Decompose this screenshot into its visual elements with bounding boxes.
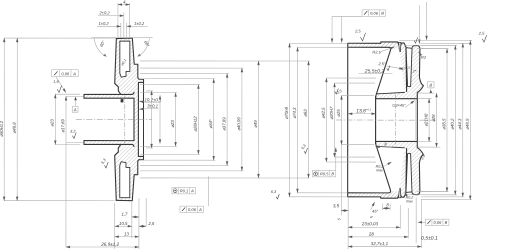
extension line face top right bbox=[417, 92, 434, 94]
dimension 28 line bbox=[348, 236, 408, 238]
diameter line phi23 hub bbox=[54, 94, 56, 144]
svg-text:0,06: 0,06 bbox=[61, 71, 70, 76]
dimension 1±0.2 right line bbox=[127, 25, 148, 27]
svg-text:B: B bbox=[331, 171, 334, 176]
extension line 2±0.2 bbox=[123, 12, 125, 37]
right view bore left wall bbox=[375, 96, 377, 144]
svg-text:2,5: 2,5 bbox=[147, 221, 155, 226]
dimension 32.7 line bbox=[348, 246, 421, 248]
parallelism frame 0.06 A upper bbox=[52, 70, 79, 77]
left view lower rim outline bbox=[116, 119, 143, 200]
left view upper rim groove cavity bbox=[120, 41, 130, 77]
datum A arrow bbox=[74, 97, 77, 100]
extension line upper to column &#8960;40,09 bbox=[140, 67, 243, 69]
left view lower rim groove cavity bbox=[120, 162, 130, 198]
roughness small at wall bbox=[387, 66, 390, 71]
column phi26 bbox=[333, 83, 335, 157]
column phi81.4 bbox=[288, 43, 290, 197]
svg-text:⌀49,8: ⌀49,8 bbox=[12, 122, 17, 134]
svg-text:⌀42,5: ⌀42,5 bbox=[321, 107, 326, 119]
rim top extension line bbox=[92, 37, 153, 39]
right view outer face bbox=[416, 92, 418, 147]
svg-text:0,3×45°: 0,3×45° bbox=[392, 104, 406, 108]
extension line lower to column &#8960;49 bbox=[140, 177, 260, 179]
extension line hub upper bbox=[55, 93, 80, 95]
right view upper groove notch bbox=[399, 42, 401, 51]
extension phi25 top bbox=[342, 95, 375, 97]
column aux line bbox=[340, 145, 342, 215]
extension line flange ID bottom bbox=[297, 192, 347, 194]
dimension 26.9±1.2 line bbox=[66, 246, 139, 248]
roughness 3.2 mark hub bbox=[72, 132, 76, 138]
right view upper recess white area bbox=[377, 49, 405, 94]
extension upper &#8960;48,9 bbox=[469, 40, 472, 42]
column &#8960;48,9 bbox=[469, 41, 471, 200]
svg-text:0,06: 0,06 bbox=[434, 220, 443, 225]
extension lower &#8960;38,5 bbox=[421, 191, 449, 193]
svg-text:2,5: 2,5 bbox=[354, 29, 361, 34]
right view upper left wall outer edge bbox=[401, 43, 407, 92]
short column near ledge bbox=[151, 91, 153, 148]
extension line flange lip right bbox=[420, 42, 471, 44]
extension line col42 bottom bbox=[326, 161, 376, 163]
extension line rim tip left bbox=[117, 3, 119, 37]
diameter line phi17.69 hub bbox=[65, 96, 67, 246]
left view upper body section (hatched) bbox=[84, 38, 144, 119]
svg-text:A: A bbox=[72, 71, 76, 76]
left view upper rim outline bbox=[116, 38, 143, 119]
extension line flange OD bottom bbox=[289, 196, 347, 198]
column phi25 bbox=[340, 96, 342, 145]
extension line lower to column &#8960;37,69 bbox=[140, 164, 229, 166]
projection line to right view bbox=[260, 60, 310, 62]
svg-text:A: A bbox=[190, 188, 194, 193]
extension upper dome bbox=[417, 48, 449, 50]
extension line upper to column &#8960;28H12 bbox=[140, 84, 200, 86]
left view lower rim left wall outline bbox=[115, 144, 121, 200]
extension line upper to column &#8960;37,69 bbox=[140, 72, 229, 74]
extension line bottom ledge bbox=[138, 198, 140, 249]
right view upper V-channel cavity bbox=[406, 48, 412, 87]
extension line flange top right bbox=[399, 39, 472, 41]
right view upper flange inner edge bbox=[348, 47, 391, 98]
diameter dimension line &#8960;49 bbox=[257, 61, 259, 178]
extension line lower to column &#8960;23 bbox=[140, 145, 177, 147]
ext short col bottom bbox=[146, 147, 153, 149]
svg-text:⌀20H7: ⌀20H7 bbox=[329, 106, 334, 119]
svg-text:⌀50±0,2: ⌀50±0,2 bbox=[0, 120, 4, 136]
svg-text:3,2: 3,2 bbox=[70, 130, 76, 134]
datum B arrow bbox=[430, 90, 433, 93]
diameter dimension line &#8960;37,69 bbox=[226, 73, 228, 165]
svg-text:B: B bbox=[445, 220, 448, 225]
extension line flange OD top bbox=[290, 42, 348, 44]
parallelism frame 0.06 A lower bbox=[180, 206, 204, 212]
right view bore top line bbox=[376, 98, 418, 100]
leader from frame bbox=[56, 77, 66, 93]
svg-text:3±0,1: 3±0,1 bbox=[147, 104, 159, 109]
diameter dimension line &#8960;34* bbox=[213, 79, 215, 160]
dimension 1±0.2 left line bbox=[97, 25, 121, 27]
svg-text:0,5±0,1: 0,5±0,1 bbox=[421, 236, 438, 242]
svg-text:⌀17,69: ⌀17,69 bbox=[60, 119, 65, 133]
leader frame connector bbox=[332, 15, 362, 17]
datum A frame bbox=[72, 106, 78, 112]
diameter dim line phi49.8 bbox=[16, 38, 18, 201]
svg-text:max: max bbox=[376, 168, 383, 172]
right view lower recess white area bbox=[377, 146, 405, 191]
dimension 23±0.03 line bbox=[348, 226, 400, 228]
right view left face line bbox=[347, 43, 349, 197]
extension line hub inner upper bbox=[66, 95, 84, 97]
short column hub right bbox=[159, 95, 161, 143]
svg-text:⌀74,3: ⌀74,3 bbox=[292, 107, 297, 119]
extension upper &#8960;40,2 bbox=[421, 44, 457, 46]
svg-text:6,3: 6,3 bbox=[271, 190, 277, 194]
extension line upper to column &#8960;49 bbox=[140, 60, 260, 62]
leader frame to flange right bbox=[341, 16, 343, 42]
extension line lower to column &#8960;28H12 bbox=[140, 153, 200, 155]
svg-text:-0,15: -0,15 bbox=[404, 65, 410, 69]
parallelism frame 0.06 B bottom bbox=[425, 219, 449, 225]
dimension 13.8 line bbox=[348, 113, 375, 115]
svg-text:B: B bbox=[381, 11, 384, 16]
svg-text:26,9±1,2: 26,9±1,2 bbox=[100, 242, 119, 247]
dimension 3.5 line bbox=[341, 210, 348, 212]
leader runout frame bbox=[335, 148, 337, 171]
svg-text:+0,1: +0,1 bbox=[366, 107, 372, 111]
right view bore vertical centerline bbox=[394, 95, 396, 146]
left view bore top line bbox=[84, 98, 134, 119]
right view lower flange section (hatched) bbox=[348, 193, 398, 199]
extension line bore top right bbox=[417, 98, 431, 100]
extension line bore bottom right bbox=[417, 140, 431, 142]
leader to runout frames bbox=[207, 176, 209, 206]
extension lower wall tips bbox=[404, 194, 457, 196]
svg-text:⌀25: ⌀25 bbox=[336, 109, 341, 117]
leader 0.06B bottom bbox=[418, 221, 426, 223]
extension line flange ID top bbox=[298, 46, 348, 48]
right view bore bottom line bbox=[376, 140, 418, 142]
roughness 2.5 far right bbox=[482, 35, 486, 42]
svg-text:13,8: 13,8 bbox=[356, 108, 366, 114]
svg-text:32,7±1,1: 32,7±1,1 bbox=[371, 241, 389, 246]
svg-text:2±0,2: 2±0,2 bbox=[98, 10, 110, 15]
column &#8960;44,3 bbox=[462, 43, 464, 197]
svg-text:R2,5: R2,5 bbox=[372, 50, 381, 55]
right view lower right wall outline bbox=[412, 148, 423, 195]
angle 60 left arc bbox=[94, 39, 107, 57]
parallelism frame 0.06 B top bbox=[362, 10, 386, 16]
dimension 13 line bbox=[115, 236, 139, 238]
right view lower rim block section (hatched) bbox=[376, 141, 424, 198]
dimension 1.7 line bbox=[132, 216, 139, 218]
svg-text:⌀38,5: ⌀38,5 bbox=[441, 118, 446, 130]
extension line rim tip right bbox=[129, 3, 131, 37]
svg-text:⌀23: ⌀23 bbox=[170, 120, 175, 128]
svg-text:⌀40,2: ⌀40,2 bbox=[450, 118, 455, 130]
dimension 8 line bbox=[376, 146, 392, 148]
left view keyway section bbox=[121, 99, 124, 102]
extension line bottom web bbox=[131, 202, 133, 239]
column &#8960;38,5 bbox=[446, 49, 448, 192]
svg-text:R0,1: R0,1 bbox=[180, 188, 188, 193]
vertical line above lip bbox=[418, 5, 420, 43]
extension line 28 right bbox=[407, 208, 409, 238]
right view lower recess bottom edge bbox=[377, 146, 405, 148]
dimension 2.5 line bbox=[139, 225, 146, 227]
svg-text:⌀63: ⌀63 bbox=[303, 109, 308, 117]
svg-text:⌀23: ⌀23 bbox=[49, 119, 54, 127]
extension upper wall tips bbox=[404, 44, 457, 46]
right view lower flange inner edge bbox=[348, 141, 391, 192]
left view bore vertical centerline bbox=[124, 95, 126, 143]
right view lower left wall outer edge bbox=[401, 149, 407, 198]
leader frame to flange left bbox=[331, 16, 333, 42]
right view horizontal centerline bbox=[336, 119, 437, 121]
svg-text:10,2±0,1: 10,2±0,1 bbox=[144, 97, 162, 102]
extension line 1±0.2 inner bbox=[126, 23, 128, 40]
extension phi25 bottom bbox=[341, 144, 374, 146]
svg-text:13: 13 bbox=[124, 231, 129, 236]
left view hub top outer line bbox=[84, 92, 134, 94]
extension line bottom tip bbox=[114, 203, 116, 249]
svg-text:⌀28: ⌀28 bbox=[431, 114, 436, 122]
svg-text:A: A bbox=[73, 107, 77, 112]
svg-text:45°: 45° bbox=[372, 209, 378, 214]
dimension 4 line bbox=[118, 4, 130, 6]
svg-text:1,7: 1,7 bbox=[121, 212, 128, 217]
extension line col26 top bbox=[335, 82, 376, 84]
extension line rim top to margin bbox=[4, 37, 116, 39]
extension upper &#8960;38,5 bbox=[421, 48, 449, 50]
left view horizontal centerline bbox=[76, 118, 152, 120]
left view bore bottom line bbox=[84, 119, 134, 140]
extension line lower to column &#8960;34* bbox=[140, 159, 215, 161]
runout frame R0.5 B bbox=[312, 170, 336, 176]
column phi63 between views bbox=[307, 61, 309, 178]
column phi21H8 bbox=[428, 99, 430, 142]
extension line 1±0.2 left bbox=[120, 23, 122, 37]
extension line bottom ledge2 bbox=[145, 198, 147, 226]
angle 60 right arc bbox=[138, 39, 150, 57]
extension line col42 top bbox=[326, 77, 376, 79]
roughness 6.3 mark lower rim bbox=[104, 162, 108, 168]
diameter dim line phi50.2 bbox=[3, 38, 5, 201]
extension line 23 right bbox=[399, 205, 401, 229]
column phi74.3 bbox=[296, 47, 298, 193]
extension line upper to column &#8960;23 bbox=[140, 92, 177, 94]
svg-text:max: max bbox=[406, 199, 413, 203]
dimension 2±0.2 line bbox=[98, 15, 124, 17]
svg-text:R0,5: R0,5 bbox=[320, 171, 329, 176]
extension line hub inner lower bbox=[66, 141, 84, 143]
column &#8960;40,2 bbox=[454, 45, 456, 194]
svg-text:⌀28H12: ⌀28H12 bbox=[193, 116, 198, 132]
svg-text:0,06: 0,06 bbox=[370, 11, 379, 16]
extension line left face bottom bbox=[347, 198, 349, 249]
extension line 0.5 dim bbox=[415, 198, 417, 243]
dimension 10.5 line bbox=[115, 225, 132, 227]
roughness 2.5 on flange top bbox=[360, 33, 365, 41]
svg-text:2,5°: 2,5° bbox=[377, 61, 386, 66]
left view hub end face upper edge bbox=[83, 94, 85, 98]
roughness mark between walls bbox=[414, 37, 418, 43]
svg-text:2,5: 2,5 bbox=[478, 31, 485, 36]
svg-text:⌀34*: ⌀34* bbox=[208, 119, 213, 128]
extension line face bottom right bbox=[417, 146, 440, 148]
right view lower groove notch bbox=[399, 189, 401, 198]
svg-text:B: B bbox=[429, 83, 432, 88]
extension line hub lower bbox=[55, 144, 80, 146]
svg-text:1,6: 1,6 bbox=[53, 79, 59, 84]
svg-text:23±0,03: 23±0,03 bbox=[361, 221, 379, 226]
svg-text:⌀21H8: ⌀21H8 bbox=[423, 113, 428, 126]
right view upper flange section (hatched) bbox=[348, 42, 398, 48]
vertical line above flange top bbox=[426, 2, 428, 40]
right view upper right wall outline bbox=[412, 45, 423, 92]
extension lower &#8960;40,2 bbox=[421, 194, 457, 196]
svg-text:⌀70n9: ⌀70n9 bbox=[284, 106, 289, 119]
diameter dimension line &#8960;40,09 bbox=[241, 68, 243, 171]
diameter dimension line &#8960;23 bbox=[175, 93, 177, 147]
left view hub bottom outer line bbox=[84, 144, 134, 146]
left view hub end face lower edge bbox=[83, 141, 85, 145]
svg-text:⌀48,9: ⌀48,9 bbox=[465, 118, 470, 130]
extension line upper to column &#8960;34* bbox=[140, 78, 215, 80]
chamfer edge line right face bbox=[414, 100, 416, 140]
right view lower V-channel cavity bbox=[406, 154, 412, 193]
svg-text:⌀40,09: ⌀40,09 bbox=[236, 117, 241, 131]
column phi28 bbox=[435, 93, 437, 147]
svg-text:R2: R2 bbox=[421, 55, 427, 60]
left view web rim surface line bbox=[142, 82, 144, 156]
right view upper recess bottom edge bbox=[377, 92, 405, 94]
svg-text:2*: 2* bbox=[412, 69, 417, 74]
datum B frame bbox=[428, 82, 434, 88]
extension line lower to column &#8960;40,09 bbox=[140, 170, 243, 172]
ext short col top bbox=[146, 90, 153, 92]
svg-text:0,06: 0,06 bbox=[188, 207, 197, 212]
svg-text:3,5: 3,5 bbox=[333, 203, 340, 208]
roughness mark near flange bbox=[335, 88, 339, 94]
roughness 1.6 mark bbox=[57, 85, 61, 92]
svg-text:1±0,2: 1±0,2 bbox=[98, 21, 109, 26]
roughness 6.3 small bbox=[304, 148, 308, 154]
extension lower dome bbox=[417, 191, 449, 193]
left view hub bore cavity bbox=[84, 98, 134, 140]
svg-text:A: A bbox=[198, 207, 202, 212]
extension line rim bottom to margin bbox=[4, 200, 114, 202]
svg-text:10,5: 10,5 bbox=[119, 221, 128, 226]
right view lower flange outline bbox=[348, 196, 399, 199]
extension upper &#8960;44,3 bbox=[461, 42, 464, 44]
left view lower body section (hatched) bbox=[84, 119, 144, 200]
extension line 32.7 right bbox=[420, 200, 422, 248]
diameter dimension line &#8960;28H12 bbox=[197, 85, 199, 155]
extension lower &#8960;44,3 bbox=[421, 196, 464, 198]
extension lower &#8960;48,9 bbox=[421, 199, 472, 201]
column phi42.3 bbox=[325, 78, 327, 162]
svg-text:28: 28 bbox=[368, 231, 375, 236]
svg-text:⌀49: ⌀49 bbox=[253, 120, 258, 128]
projection line to right view lower bbox=[259, 177, 309, 179]
right view upper flange outline bbox=[348, 42, 399, 45]
svg-text:⌀37,69: ⌀37,69 bbox=[221, 117, 226, 131]
right view upper rim block section (hatched) bbox=[376, 42, 424, 99]
runout frame R0.1 A bbox=[172, 187, 196, 193]
extension line col26 bottom bbox=[334, 156, 374, 158]
svg-text:⌀44,3: ⌀44,3 bbox=[457, 118, 462, 130]
left view upper rim left wall outline bbox=[115, 39, 121, 95]
svg-text:1±0,2: 1±0,2 bbox=[134, 21, 145, 26]
